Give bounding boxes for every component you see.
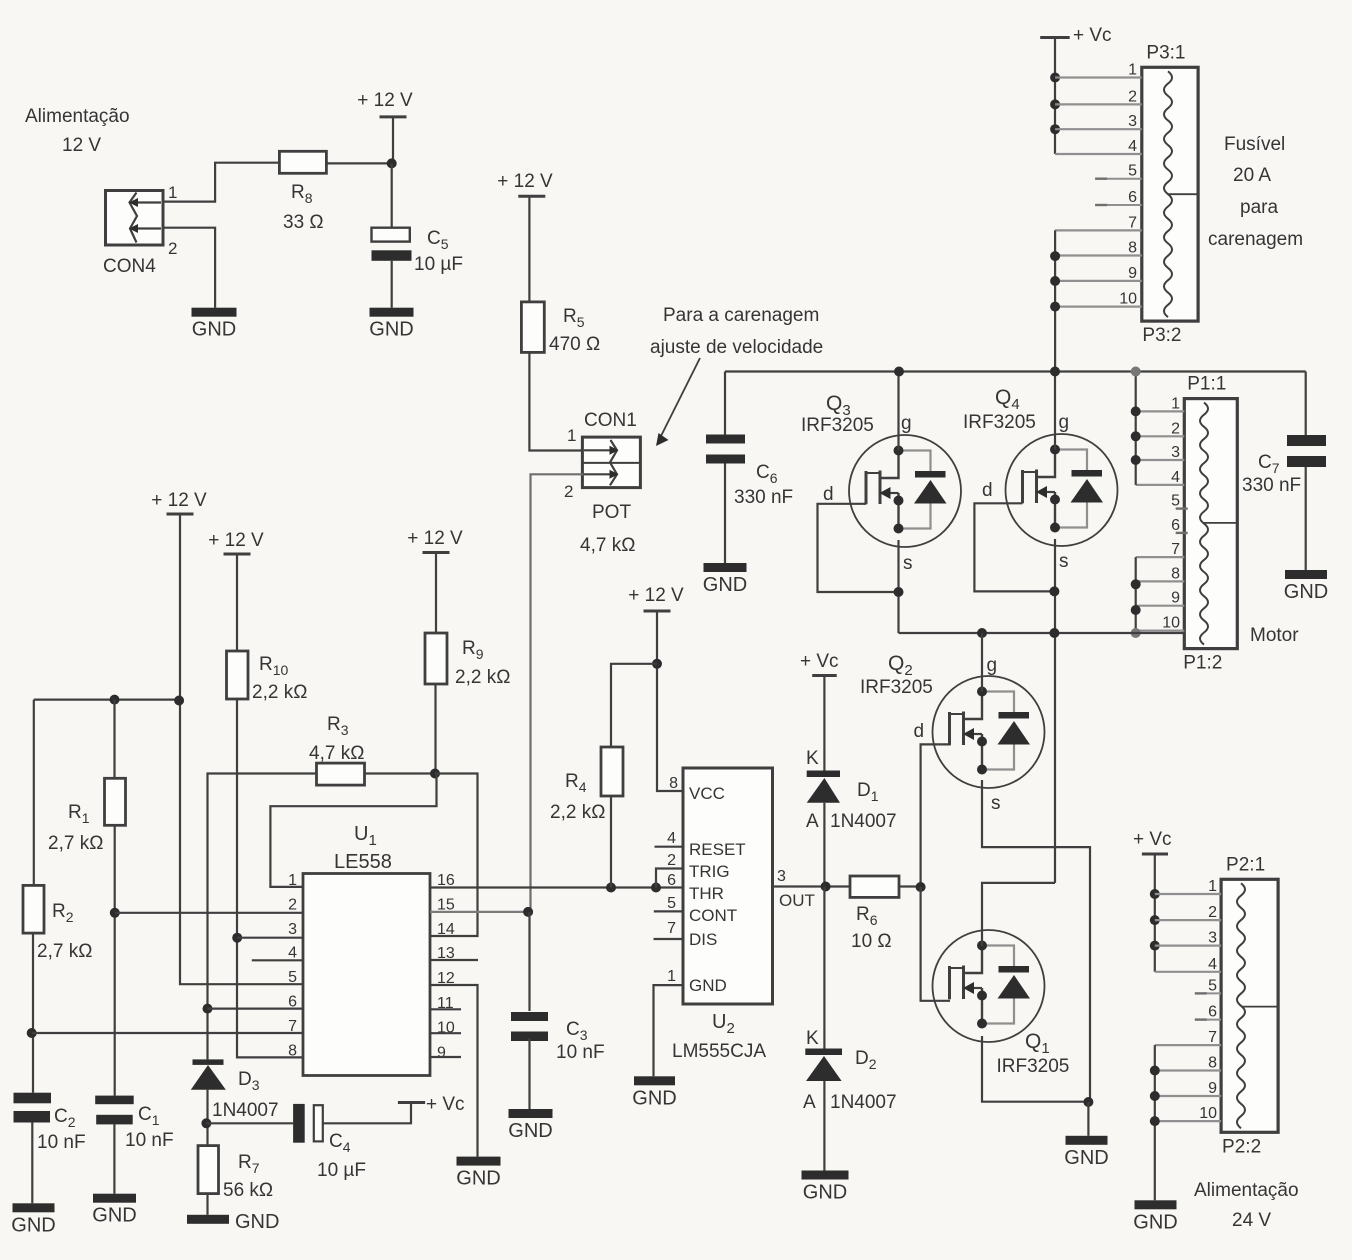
svg-text:OUT: OUT bbox=[779, 891, 815, 910]
connector P1 body bbox=[1184, 399, 1237, 649]
svg-text:10: 10 bbox=[1162, 615, 1180, 632]
wire CON4 pin1 to R8 bbox=[163, 163, 279, 202]
connector P3 pin 9 line bbox=[1055, 280, 1142, 282]
node tie/R1 bbox=[110, 695, 120, 705]
power +Vc (P3) bbox=[1040, 36, 1070, 39]
transistor q3 source arrow bbox=[890, 492, 899, 494]
svg-text:1: 1 bbox=[1208, 878, 1217, 895]
svg-text:9: 9 bbox=[1171, 590, 1180, 607]
connector P3 pin 8 line bbox=[1055, 254, 1142, 256]
svg-text:Motor: Motor bbox=[1250, 625, 1299, 646]
svg-text:IRF3205: IRF3205 bbox=[860, 677, 933, 698]
power +12V (left rail) bbox=[167, 513, 194, 516]
svg-text:7: 7 bbox=[1208, 1029, 1217, 1046]
svg-text:g: g bbox=[901, 413, 912, 434]
svg-text:s: s bbox=[903, 553, 913, 574]
svg-text:RESET: RESET bbox=[689, 840, 746, 859]
wire Q4 drain loop bbox=[974, 503, 1054, 591]
power +Vc (C4) bbox=[398, 1101, 425, 1104]
transistor q4 body diode branch bbox=[1055, 450, 1087, 472]
svg-text:10 Ω: 10 Ω bbox=[851, 931, 892, 952]
wire U1 pin2 line bbox=[115, 912, 303, 914]
connector P2 fuse zigzag element bbox=[1237, 883, 1245, 1128]
wire +12V to R5 bbox=[528, 196, 530, 302]
svg-text:1N4007: 1N4007 bbox=[212, 1100, 279, 1121]
node R10/U1 pin3 junction bbox=[232, 933, 242, 943]
connector P3 body bbox=[1142, 67, 1198, 321]
svg-text:GND: GND bbox=[508, 1120, 552, 1142]
capacitor C3 bbox=[511, 1012, 548, 1021]
node Q1 source / Q2 source rail junction bbox=[1083, 1097, 1093, 1107]
svg-text:P3:1: P3:1 bbox=[1146, 42, 1185, 63]
svg-text:d: d bbox=[823, 484, 834, 505]
wire bus corner down to C7 bbox=[1305, 372, 1307, 437]
power +12V (R5) bbox=[518, 195, 545, 198]
svg-text:12 V: 12 V bbox=[62, 135, 101, 156]
node P1 top bus junction bbox=[1131, 367, 1141, 377]
transistor q1 source arrow bbox=[973, 987, 982, 989]
transistor q2 body diode cathode bar bbox=[999, 712, 1030, 719]
svg-text:1N4007: 1N4007 bbox=[830, 811, 897, 832]
svg-text:s: s bbox=[991, 793, 1001, 814]
svg-text:2: 2 bbox=[1171, 420, 1180, 437]
transistor q1 source line bbox=[981, 988, 983, 1026]
transistor q2 body diode branch bbox=[982, 692, 1014, 714]
svg-text:470 Ω: 470 Ω bbox=[549, 334, 600, 355]
power +12V (R8 node) bbox=[380, 115, 407, 118]
wire U1 pin6 line bbox=[208, 1007, 304, 1009]
svg-text:1: 1 bbox=[168, 183, 177, 202]
resistor R6 bbox=[850, 876, 899, 897]
node R2/C2/U1 pin7 junction bbox=[27, 1028, 37, 1038]
svg-text:TRIG: TRIG bbox=[689, 862, 730, 881]
svg-text:6: 6 bbox=[1208, 1004, 1217, 1021]
node P3 pin3 bbox=[1050, 124, 1060, 134]
ground below U1 pin12 bbox=[457, 1157, 501, 1166]
connector P1 pin 7 line bbox=[1136, 556, 1185, 558]
node P2 pin9 bbox=[1150, 1091, 1160, 1101]
wire CON4 pin2 to ground bbox=[163, 228, 215, 308]
transistor q2 source line bbox=[981, 734, 983, 772]
connector P2 pin 4 line bbox=[1155, 971, 1221, 973]
connector P3 pin 7 line bbox=[1055, 229, 1142, 231]
wire +Vc to P3 pins 1-3 bbox=[1054, 38, 1056, 155]
node R8/C5 junction bbox=[387, 158, 397, 168]
svg-text:GND: GND bbox=[92, 1205, 136, 1227]
wire CON1 pin2 down to U1 pin15 node bbox=[531, 474, 584, 912]
wire bus to P1 pins 1-3 bbox=[1135, 372, 1137, 485]
ground below C6 bbox=[704, 563, 747, 572]
node P1 pin10 output bus junction bbox=[1131, 628, 1141, 638]
ground below C7 bbox=[1285, 570, 1327, 579]
node P3 pin2 bbox=[1050, 99, 1060, 109]
transistor q1 body diode branch bbox=[982, 946, 1014, 968]
transistor q4 source arrow bbox=[1046, 491, 1055, 493]
node P3 pin9 bbox=[1050, 276, 1060, 286]
wire C1 to ground bbox=[113, 1124, 115, 1193]
connector P3 pin 3 line bbox=[1055, 128, 1142, 130]
wire R5 to CON1 pin1 bbox=[529, 352, 582, 450]
node P3 pin10 bbox=[1050, 302, 1060, 312]
connector P2 pin 3 line bbox=[1155, 944, 1221, 946]
connector P1 pin 3 line bbox=[1136, 459, 1185, 461]
svg-text:2,7 kΩ: 2,7 kΩ bbox=[48, 833, 103, 854]
svg-text:GND: GND bbox=[632, 1087, 676, 1109]
svg-text:GND: GND bbox=[1064, 1147, 1108, 1169]
wire U1 pin4 stub bbox=[252, 959, 303, 961]
connector P3 pin 2 line bbox=[1055, 103, 1142, 105]
capacitor C7 bbox=[1287, 435, 1326, 446]
ground below D2 bbox=[802, 1171, 849, 1180]
transistor q3 gate path bbox=[880, 451, 899, 479]
node pin15/C3/CON1 junction bbox=[523, 907, 533, 917]
wire bus to Q3 gate bbox=[897, 372, 899, 451]
connector CON4 wiper zigzag bbox=[130, 193, 138, 243]
connector P3 pin 4 line bbox=[1055, 153, 1142, 155]
transistor q2 junction dots bbox=[977, 687, 987, 697]
svg-text:Alimentação: Alimentação bbox=[1194, 1180, 1299, 1201]
svg-text:2: 2 bbox=[1208, 904, 1217, 921]
svg-text:2: 2 bbox=[168, 239, 177, 258]
wire U2 RESET stub bbox=[655, 846, 684, 848]
svg-text:2,2 kΩ: 2,2 kΩ bbox=[455, 667, 510, 688]
svg-text:2,2 kΩ: 2,2 kΩ bbox=[550, 802, 605, 823]
svg-text:+ 12 V: + 12 V bbox=[407, 528, 463, 549]
svg-text:4: 4 bbox=[288, 945, 297, 962]
transistor q4 body diode cathode bar bbox=[1072, 470, 1103, 477]
wire tie line down to R2 bbox=[33, 700, 35, 886]
wire junction to ground bbox=[1087, 1102, 1089, 1136]
node P1 pin1 bbox=[1131, 406, 1141, 416]
capacitor C1 bbox=[95, 1096, 134, 1105]
connector P2 pin 7 line bbox=[1155, 1044, 1221, 1046]
wire +Vc to P2 pins 1-3 bbox=[1154, 854, 1156, 972]
connector P1 pin 4 line bbox=[1136, 484, 1185, 486]
transistor q1 channel bracket bbox=[948, 966, 951, 999]
wire D2 anode to ground bbox=[823, 1081, 825, 1171]
svg-text:9: 9 bbox=[1208, 1080, 1217, 1097]
wire U1 pin15 line bbox=[430, 911, 528, 913]
wire +12V to R10 bbox=[236, 554, 238, 651]
transistor q4 source line bbox=[1054, 492, 1056, 530]
wire bus to Q4 gate bbox=[1054, 372, 1056, 450]
node P2 pin3 bbox=[1150, 941, 1160, 951]
svg-text:3: 3 bbox=[1128, 113, 1137, 130]
transistor q2 body diode triangle bbox=[998, 721, 1031, 745]
wire C5 to ground bbox=[391, 261, 393, 308]
svg-text:2: 2 bbox=[1128, 88, 1137, 105]
node +12V/R4 branch bbox=[652, 659, 662, 669]
transistor q2 channel bracket bbox=[948, 712, 951, 745]
wire R10 down to U1 pin8 bbox=[237, 699, 303, 1057]
svg-text:g: g bbox=[987, 655, 998, 676]
power +12V (U2) bbox=[644, 610, 671, 613]
svg-text:carenagem: carenagem bbox=[1208, 229, 1303, 250]
connector CON4 pin1 inner line bbox=[133, 201, 161, 203]
connector CON4 pin2 inner line bbox=[133, 227, 161, 229]
svg-text:P2:2: P2:2 bbox=[1222, 1136, 1261, 1157]
svg-text:GND: GND bbox=[703, 574, 747, 596]
connector P2 mid divider bbox=[1241, 1006, 1278, 1008]
wire R4 to THR line bbox=[610, 796, 612, 888]
wire output rail to Q1 gate bbox=[982, 883, 1055, 946]
svg-text:5: 5 bbox=[288, 969, 297, 986]
svg-text:THR: THR bbox=[689, 884, 724, 903]
node Q4 source/drain junction bbox=[1049, 586, 1059, 596]
wire +12V left rail down to U1 pin5 bbox=[180, 514, 303, 984]
wire node to C5 bbox=[391, 163, 393, 227]
svg-text:GND: GND bbox=[11, 1214, 55, 1236]
resistor R9 bbox=[425, 633, 447, 684]
svg-text:IRF3205: IRF3205 bbox=[801, 415, 874, 436]
wire P2 pins 7-10 to ground bbox=[1154, 1045, 1156, 1200]
wire R2 to C2 via pin7 node bbox=[32, 933, 34, 1093]
transistor q3 source line bbox=[897, 493, 899, 531]
transistor q4 gate bar bbox=[1035, 470, 1038, 504]
svg-text:3: 3 bbox=[1171, 444, 1180, 461]
svg-text:8: 8 bbox=[669, 775, 678, 792]
power +Vc (D1) bbox=[812, 674, 837, 677]
wire R1 bottom to C1 bbox=[114, 825, 116, 1095]
svg-text:1: 1 bbox=[1128, 62, 1137, 79]
wire U1 pin9 stub bbox=[430, 1056, 461, 1058]
capacitor C2 bbox=[14, 1093, 52, 1104]
wire U2 CONT stub bbox=[654, 910, 683, 912]
connector P2 pin 6 stub bbox=[1202, 1019, 1221, 1021]
svg-text:2: 2 bbox=[564, 482, 573, 501]
svg-text:24 V: 24 V bbox=[1232, 1210, 1271, 1231]
node R6 right junction bbox=[916, 882, 926, 892]
svg-text:POT: POT bbox=[592, 502, 631, 523]
wire P3 pins 7-10 to bus bbox=[1054, 230, 1056, 371]
wire U1 pin10 stub bbox=[430, 1032, 461, 1034]
svg-text:10 µF: 10 µF bbox=[317, 1160, 366, 1181]
svg-text:P1:2: P1:2 bbox=[1183, 653, 1222, 674]
wire CON1/pin15 node down to C3 bbox=[528, 912, 530, 1011]
svg-text:3: 3 bbox=[1208, 930, 1217, 947]
wire U2 TRIG stub tie to THR bbox=[656, 869, 683, 888]
wire Q3 drain loop bbox=[818, 504, 899, 592]
wire U2 OUT to R6 bbox=[773, 885, 851, 887]
power +12V (R9) bbox=[423, 551, 450, 554]
node R1/U1 pin2 junction bbox=[110, 908, 120, 918]
svg-text:P2:1: P2:1 bbox=[1226, 854, 1265, 875]
svg-text:GND: GND bbox=[192, 319, 236, 341]
svg-text:2,2 kΩ: 2,2 kΩ bbox=[252, 682, 307, 703]
wire Q2 source to right rail bbox=[982, 780, 1090, 1102]
connector P3 pin 1 line bbox=[1055, 76, 1142, 78]
svg-text:+ Vc: + Vc bbox=[426, 1094, 465, 1115]
connector CON1 mid divider bbox=[582, 462, 640, 464]
svg-text:10: 10 bbox=[1119, 291, 1137, 308]
svg-text:ajuste de velocidade: ajuste de velocidade bbox=[650, 337, 823, 358]
svg-text:4,7 kΩ: 4,7 kΩ bbox=[309, 743, 364, 764]
svg-text:1: 1 bbox=[567, 426, 576, 445]
wire R3 right lead to node bbox=[365, 772, 436, 774]
node P1 pin9 bbox=[1131, 605, 1141, 615]
connector P1 pin 1 line bbox=[1136, 410, 1185, 412]
svg-text:IRF3205: IRF3205 bbox=[997, 1056, 1070, 1077]
wire C3 to ground bbox=[528, 1038, 530, 1109]
svg-text:+ 12 V: + 12 V bbox=[628, 585, 684, 606]
svg-text:5: 5 bbox=[1171, 493, 1180, 510]
wire output bus to Q2 gate bbox=[981, 633, 983, 692]
svg-text:GND: GND bbox=[803, 1182, 847, 1204]
resistor R5 bbox=[521, 302, 544, 353]
resistor R3 bbox=[317, 763, 365, 785]
svg-text:9: 9 bbox=[1128, 265, 1137, 282]
svg-text:1: 1 bbox=[288, 872, 297, 889]
transistor q1 gate path bbox=[964, 946, 983, 974]
wire +12V to R9 bbox=[435, 553, 437, 635]
svg-text:IRF3205: IRF3205 bbox=[963, 412, 1036, 433]
transistor q4 circle bbox=[1006, 434, 1118, 546]
connector P2 pin 9 line bbox=[1155, 1095, 1221, 1097]
connector P2 pin 10 line bbox=[1155, 1120, 1221, 1122]
wire U1 pin13 stub bbox=[430, 959, 478, 961]
svg-text:GND: GND bbox=[369, 319, 413, 341]
transistor q1 junction dots bbox=[977, 941, 987, 951]
svg-text:5: 5 bbox=[1128, 163, 1137, 180]
transistor q4 channel bracket bbox=[1021, 470, 1024, 503]
svg-text:CONT: CONT bbox=[689, 906, 737, 925]
svg-text:10 nF: 10 nF bbox=[556, 1042, 605, 1063]
svg-text:+ Vc: + Vc bbox=[1133, 829, 1172, 850]
svg-text:A: A bbox=[803, 1092, 816, 1113]
wire U1 pin11 stub bbox=[430, 1008, 461, 1010]
svg-text:+ 12 V: + 12 V bbox=[497, 171, 553, 192]
node R3/R9/pin1/pin14 junction bbox=[430, 769, 440, 779]
svg-text:Fusível: Fusível bbox=[1224, 134, 1285, 155]
transistor q3 channel bracket bbox=[865, 471, 868, 504]
svg-text:4: 4 bbox=[1208, 956, 1217, 973]
wire R1/R2 top tie line bbox=[34, 698, 181, 700]
svg-text:DIS: DIS bbox=[689, 930, 717, 949]
ground below CON4 pin2 bbox=[192, 308, 237, 317]
connector P2 pin 2 line bbox=[1155, 919, 1221, 921]
svg-text:+ 12 V: + 12 V bbox=[208, 530, 264, 551]
transistor q3 body diode cathode bar bbox=[915, 471, 946, 478]
wire C7 to ground bbox=[1305, 467, 1307, 570]
connector P3 pin 10 line bbox=[1055, 306, 1142, 308]
svg-text:K: K bbox=[806, 748, 819, 769]
wire R3 left lead down to D3 rail bbox=[208, 774, 317, 1060]
svg-text:CON1: CON1 bbox=[584, 410, 637, 431]
wire U1 pin3 line bbox=[237, 937, 303, 939]
svg-text:6: 6 bbox=[1128, 189, 1137, 206]
node output bus / Q4 source line bbox=[1049, 628, 1059, 638]
svg-text:10 µF: 10 µF bbox=[414, 254, 463, 275]
diode D1 cathode bar bbox=[807, 771, 840, 778]
diode D1 triangle bbox=[807, 778, 840, 803]
svg-text:GND: GND bbox=[456, 1168, 500, 1190]
wire R6 to Q2/Q1 drain rail bbox=[899, 885, 921, 887]
svg-text:9: 9 bbox=[437, 1044, 446, 1061]
transistor q1 body diode cathode bar bbox=[999, 966, 1030, 973]
connector P2 pin 1 line bbox=[1155, 893, 1221, 895]
connector P3 pin 6 stub bbox=[1102, 204, 1142, 206]
node Q4 gate bus junction bbox=[1050, 367, 1060, 377]
svg-text:GND: GND bbox=[689, 976, 727, 995]
wire R8 to +12V node bbox=[326, 162, 391, 164]
ic U1 body bbox=[303, 874, 430, 1076]
svg-text:8: 8 bbox=[288, 1042, 297, 1059]
transistor q1 body diode triangle bbox=[998, 975, 1031, 999]
wire OUT node down to D2 bbox=[823, 887, 825, 1049]
svg-text:10 nF: 10 nF bbox=[125, 1130, 174, 1151]
wire branch to R4 bbox=[611, 664, 657, 747]
connector P1 mid divider bbox=[1204, 522, 1237, 524]
wire node to U1 pin14 loop bbox=[430, 774, 478, 937]
capacitor C6 bbox=[706, 435, 745, 444]
wire P1 pins 7-10 to output bus bbox=[1135, 557, 1137, 633]
transistor q3 junction dots bbox=[894, 446, 904, 456]
svg-text:7: 7 bbox=[667, 920, 676, 937]
svg-text:Para a carenagem: Para a carenagem bbox=[663, 305, 819, 326]
svg-text:6: 6 bbox=[667, 872, 676, 889]
resistor R2 bbox=[23, 885, 44, 933]
svg-text:GND: GND bbox=[1284, 581, 1328, 603]
node Q3 gate bus junction bbox=[894, 367, 904, 377]
connector P1 pin 8 line bbox=[1136, 580, 1185, 582]
node P1 pin8 bbox=[1131, 579, 1141, 589]
power +Vc (P2) bbox=[1142, 853, 1168, 856]
svg-text:+ Vc: + Vc bbox=[800, 651, 839, 672]
svg-text:d: d bbox=[982, 480, 993, 501]
transistor q4 body diode triangle bbox=[1071, 479, 1104, 503]
svg-text:2: 2 bbox=[667, 852, 676, 869]
svg-text:1N4007: 1N4007 bbox=[830, 1092, 897, 1113]
wire U1 pin12 line down to ground bbox=[430, 985, 478, 1157]
ground below U2 GND pin bbox=[634, 1076, 675, 1085]
diode D2 cathode bar bbox=[805, 1049, 842, 1056]
svg-text:d: d bbox=[914, 721, 925, 742]
svg-text:33 Ω: 33 Ω bbox=[283, 212, 324, 233]
svg-text:20 A: 20 A bbox=[1233, 165, 1271, 186]
svg-text:LE558: LE558 bbox=[334, 851, 392, 873]
node P2 pin1 bbox=[1150, 889, 1160, 899]
note arrow to CON1 bbox=[660, 358, 700, 438]
transistor q3 gate bar bbox=[879, 471, 882, 505]
svg-text:7: 7 bbox=[1128, 214, 1137, 231]
transistor q4 gate path bbox=[1037, 450, 1056, 478]
svg-text:1: 1 bbox=[667, 968, 676, 985]
svg-text:8: 8 bbox=[1208, 1055, 1217, 1072]
svg-text:2,7 kΩ: 2,7 kΩ bbox=[37, 941, 92, 962]
node P1 pin3 bbox=[1131, 455, 1141, 465]
svg-text:10 nF: 10 nF bbox=[37, 1132, 86, 1153]
wire junction to C4 bbox=[206, 1122, 293, 1124]
svg-text:LM555CJA: LM555CJA bbox=[672, 1041, 766, 1062]
wire U1 pin7 line bbox=[32, 1032, 303, 1034]
capacitor C5 (polarized) bbox=[372, 228, 410, 242]
connector P1 pin 10 line bbox=[1136, 629, 1185, 631]
node P2 pin2 bbox=[1150, 915, 1160, 925]
svg-text:2: 2 bbox=[288, 897, 297, 914]
ground below P2 bbox=[1135, 1200, 1177, 1209]
wire Q4 source down through output bus bbox=[1054, 539, 1056, 883]
wire D3 anode down to R7 bbox=[206, 1090, 208, 1146]
wire Q2 drain to R6 node bbox=[921, 744, 950, 887]
wire C6 to ground bbox=[724, 464, 726, 564]
svg-text:1: 1 bbox=[1171, 395, 1180, 412]
transistor q2 source arrow bbox=[973, 733, 982, 735]
svg-text:3: 3 bbox=[777, 868, 786, 885]
connector P2 pin 8 line bbox=[1155, 1069, 1221, 1071]
svg-text:P1:1: P1:1 bbox=[1187, 374, 1226, 395]
svg-text:16: 16 bbox=[437, 872, 455, 889]
svg-text:3: 3 bbox=[288, 921, 297, 938]
